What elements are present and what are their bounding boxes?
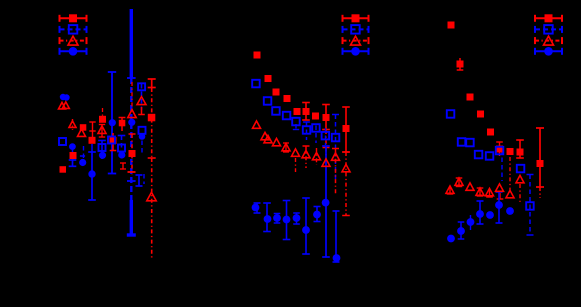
- panel1 red square 8: [70, 152, 77, 159]
- legend B red filled square: [352, 14, 360, 22]
- panel3 blue open square 1: [447, 110, 455, 118]
- panel3 blue open square 5: [486, 152, 494, 160]
- panel1 blue circle 3: [109, 119, 116, 126]
- panel1 blue circle 6: [69, 143, 76, 150]
- panel1 red square 9: [60, 166, 67, 173]
- panel3 red triangle 5: [486, 188, 494, 195]
- panel1 small blue bar x139: [136, 175, 143, 186]
- panel1 red triangle 4: [78, 129, 86, 137]
- panel2 red dashdot bar x346: [342, 152, 350, 216]
- panel2 blue bar x286: [283, 201, 291, 240]
- panel2 red triangle 2: [261, 132, 269, 139]
- panel3 red dashes x540: [539, 187, 541, 198]
- panel2 red bar tri x286: [283, 143, 289, 152]
- panel1 blue open square 6: [99, 144, 106, 151]
- legend C entry 2 line: [535, 26, 562, 33]
- panel1 blue dash cap x82: [80, 155, 85, 157]
- panel3 red bar x460: [457, 58, 464, 70]
- panel2 blue open square 7: [312, 124, 320, 132]
- legend A entry 2 line: [60, 26, 87, 33]
- panel1 blue circle 10: [139, 133, 146, 140]
- panel1 red square 5: [89, 137, 96, 144]
- panel2 red dashdot x316: [316, 148, 318, 165]
- panel3 red square 9: [537, 160, 544, 167]
- panel1 red triangle 5: [98, 126, 106, 133]
- panel2 blue bar x257: [254, 203, 261, 213]
- legend A red filled square: [69, 14, 77, 22]
- panel2 blue circle 4: [283, 216, 291, 224]
- legend B entry 1 line: [343, 15, 369, 22]
- panel1 blue bar x72 caps: [69, 160, 77, 166]
- panel2 red triangle 4: [273, 138, 281, 145]
- panel2 red square 2: [265, 75, 272, 82]
- panel1 tall blue error bar lower solid: [127, 200, 136, 235]
- panel3 red square 1: [448, 22, 455, 29]
- panel3 red square 5: [487, 129, 494, 136]
- panel2 red triangle 11: [342, 164, 350, 171]
- panel2 blue bar x296: [293, 213, 300, 224]
- panel1 red bar x102: [99, 125, 105, 138]
- panel2 red triangle 9: [322, 159, 330, 166]
- panel1 blue cap y181: [127, 180, 136, 182]
- panel2 red bar x346: [342, 107, 350, 152]
- panel3 red square 4: [477, 111, 484, 118]
- panel3 blue open square 2: [458, 138, 466, 146]
- panel3 blue circle 6: [495, 201, 503, 209]
- panel1 blue circle 9: [118, 151, 125, 158]
- panel3 blue dashed bar x530: [527, 175, 534, 236]
- panel1 red square 3: [119, 120, 126, 127]
- panel2 blue open square 9: [332, 134, 340, 142]
- panel1 blue circle 7: [99, 152, 106, 159]
- panel2 red square 7: [312, 113, 319, 120]
- panel2 blue open square 2: [264, 97, 272, 105]
- panel2 red triangle 8: [313, 152, 321, 159]
- panel1 blue error bar x112: [108, 72, 116, 174]
- panel2 blue dashes x325: [325, 128, 327, 145]
- panel1 red bar below triangle x141: [138, 107, 145, 115]
- panel1 red triangle 1: [59, 102, 66, 109]
- panel2 red square 3: [273, 89, 280, 96]
- panel3 red triangle 3: [466, 183, 474, 190]
- panel2 blue open square 1: [252, 80, 260, 88]
- panel3 blue bar x480: [477, 201, 484, 224]
- panel2 blue circle 8: [322, 199, 330, 207]
- legend A red open triangle: [68, 36, 78, 45]
- panel3 red bar tri x480: [477, 188, 484, 196]
- panel2 tall blue bar x326: [322, 146, 330, 257]
- panel3 blue bar x461: [458, 222, 465, 239]
- panel2 blue bar x277: [274, 214, 281, 224]
- panel2 blue open square 3: [272, 107, 280, 115]
- panel2 blue bar x317: [314, 207, 321, 222]
- panel3 blue circle 7: [506, 207, 514, 215]
- panel2 blue bar x336: [333, 211, 340, 262]
- panel2 blue circle 3: [273, 214, 281, 222]
- panel1 blue open square 3: [139, 127, 146, 134]
- panel3 blue circle 4: [476, 210, 484, 218]
- panel1 red square 4: [148, 114, 156, 122]
- panel2 blue open square 6: [303, 126, 311, 134]
- panel1 tall blue error bar mid dashed: [130, 78, 132, 200]
- panel1 blue line x72: [72, 150, 74, 160]
- legend A entry 1 line: [60, 15, 87, 22]
- panel3 red bar x520: [516, 140, 524, 158]
- panel2 blue circle 2: [264, 215, 272, 223]
- panel3 red square 8: [517, 149, 524, 156]
- panel1 red bar x122: [119, 118, 126, 132]
- panel3 red square 7: [507, 148, 514, 155]
- panel2 red triangle 5: [282, 143, 290, 150]
- panel1 blue open square 4: [118, 145, 125, 152]
- panel2 red triangle 6: [292, 149, 300, 156]
- panel1 blue circle 4: [128, 119, 135, 126]
- panel2 blue circle 6: [302, 226, 310, 234]
- panel3 blue circle 2: [457, 227, 465, 235]
- panel1 blue bar x102: [98, 141, 106, 160]
- panel2 red bar x306: [302, 103, 310, 121]
- panel2 red bar x326: [322, 105, 330, 130]
- panel1 red dash-dot error bar x151 upper: [148, 88, 156, 158]
- panel3 red triangle 7: [506, 190, 514, 197]
- panel3 blue open square 3: [466, 139, 474, 147]
- panel3 red bar x499: [496, 142, 503, 156]
- legend C red filled square: [545, 14, 553, 22]
- panel3 red bar x540: [536, 128, 544, 187]
- panel3 red bar tri x500: [497, 193, 504, 199]
- panel3 blue circle 1: [447, 235, 455, 243]
- panel2 blue open square 4: [283, 112, 291, 120]
- panel2 blue circle 9: [333, 254, 341, 262]
- legend A blue filled circle: [69, 47, 78, 56]
- panel2 red triangle 7: [302, 150, 310, 157]
- panel1 blue circle 8: [79, 159, 86, 166]
- panel1 red bar x92 caps: [89, 122, 95, 131]
- panel1 blue dashes x144: [143, 174, 145, 184]
- panel2 red square 1: [254, 52, 261, 59]
- panel1 tall blue error bar upper solid: [130, 9, 133, 78]
- panel3 blue circle 5: [486, 211, 494, 219]
- panel2 blue circle 5: [293, 214, 301, 222]
- legend C entry 3 line: [535, 37, 562, 44]
- panel1 blue circle 1: [60, 94, 66, 100]
- legend C entry 1 line: [535, 15, 562, 22]
- panel3 blue bar x500: [496, 192, 503, 223]
- legend B entry 2 line: [343, 26, 369, 33]
- panel2 red dashdot x326 low: [325, 148, 327, 160]
- panel3 red dashdot x520b: [519, 184, 521, 202]
- legend A blue open square: [69, 25, 78, 33]
- panel1 red triangle 6: [128, 110, 136, 118]
- panel2 red square 8: [323, 114, 330, 121]
- legend C blue open square: [544, 25, 553, 33]
- legend B entry 3 line: [343, 37, 369, 44]
- panel3 red triangle 8: [516, 175, 524, 182]
- panel3 blue open square 7: [517, 165, 525, 173]
- panel2 red triangle 3: [264, 135, 272, 142]
- panel2 blue open square 5: [292, 118, 300, 126]
- panel1 blue dashed bar x121: [118, 136, 126, 149]
- panel1 small red bar x123: [120, 163, 126, 169]
- panel2 blue bar x267: [263, 203, 271, 232]
- panel3 red triangle 4: [476, 188, 484, 195]
- panel1 red triangle 7: [137, 97, 146, 105]
- panel1 red dashdot over tall bar: [131, 82, 133, 110]
- panel2 blue bar x306b: [302, 198, 310, 254]
- legend C blue filled circle: [544, 47, 553, 56]
- panel1 red square 2: [99, 116, 106, 123]
- panel3 red square 6: [496, 146, 503, 153]
- panel2 red square 5: [294, 108, 301, 115]
- panel2 red dashdot bar x335: [332, 149, 339, 196]
- panel2 blue dashed bar x335: [332, 115, 339, 181]
- panel2 red square 4: [284, 95, 291, 102]
- legend A entry 3 line: [60, 37, 87, 44]
- panel3 red square 2: [457, 61, 464, 68]
- panel3 red triangle 2: [455, 178, 463, 185]
- panel3 blue open square 6: [496, 147, 504, 155]
- panel1 blue dashes x83: [83, 146, 85, 158]
- panel1 red solid error bar x151 top: [148, 79, 156, 88]
- panel3 red square 3: [467, 94, 474, 101]
- legend B blue filled circle: [351, 47, 360, 56]
- panel3 red triangle 1: [446, 186, 454, 193]
- panel3 blue dashes x502: [501, 150, 503, 181]
- panel3 red triangle 6: [496, 184, 504, 191]
- panel3 red bar tri x459: [456, 178, 463, 187]
- panel1 red dashdot above square x102: [102, 108, 104, 117]
- panel1 red square 7: [129, 150, 136, 157]
- legend C entry 4 line: [535, 48, 562, 55]
- panel3 blue open square 4: [475, 151, 483, 159]
- panel1 red square 1: [80, 124, 87, 131]
- panel1 red line x92: [92, 131, 94, 137]
- legend C red open triangle: [544, 36, 554, 45]
- panel1 blue cap on tall bar y78: [127, 77, 136, 79]
- panel2 blue circle 7: [313, 211, 321, 219]
- panel1 red bar x113: [110, 133, 117, 151]
- panel3 blue bar x470: [470, 215, 472, 230]
- panel2 red dashdot x326 mid: [323, 130, 330, 148]
- legend B blue open square: [351, 25, 360, 33]
- panel1 blue circle 2: [63, 94, 69, 100]
- panel2 blue dashed bar x306: [303, 122, 310, 140]
- panel3 red dashdot x510: [509, 157, 511, 190]
- panel1 blue line x92 upper: [91, 144, 93, 152]
- panel3 red bar tri x489: [486, 189, 493, 197]
- legend A entry 4 line: [60, 48, 87, 55]
- panel2 blue dashes x316: [315, 126, 317, 144]
- panel3 red bar tri x450: [447, 186, 454, 194]
- panel1 red dashdot bar x132: [129, 134, 136, 175]
- panel3 blue open square 8: [526, 202, 534, 210]
- panel2 blue open square 8: [322, 132, 330, 140]
- panel1 red dash-dot error bar x151 lower: [151, 158, 153, 260]
- legend B red open triangle: [351, 36, 361, 45]
- panel1 red dashdot x72: [72, 119, 74, 130]
- panel1 red cap crossing tall bar: [128, 171, 136, 173]
- panel1 red triangle 2: [62, 102, 69, 109]
- panel2 blue circle 1: [252, 204, 260, 212]
- panel2 red dashdot x295: [295, 158, 297, 172]
- panel1 blue dashes x142: [141, 133, 143, 155]
- legend B entry 4 line: [343, 48, 369, 55]
- panel1 blue open square 5: [108, 137, 115, 144]
- panel2 red square 9: [343, 125, 350, 132]
- panel2 red square 6: [303, 108, 310, 115]
- panel1 blue open square 2: [138, 83, 145, 90]
- panel2 red dashdot bar x306: [303, 146, 310, 168]
- panel1 blue dashed bar x141: [141, 84, 143, 110]
- panel2 red triangle 10: [332, 153, 340, 160]
- panel3 blue circle 3: [467, 218, 475, 226]
- panel1 red square 6: [110, 137, 117, 144]
- panel1 blue circle 5: [88, 170, 95, 177]
- panel2 blue dashes x296: [293, 124, 299, 130]
- panel1 red triangle 8: [147, 192, 156, 201]
- panel1 blue bar of circle x92: [88, 152, 96, 200]
- panel1 blue open square 1: [59, 138, 66, 145]
- panel1 red triangle 3: [69, 121, 76, 128]
- panel2 red triangle 1: [253, 121, 261, 128]
